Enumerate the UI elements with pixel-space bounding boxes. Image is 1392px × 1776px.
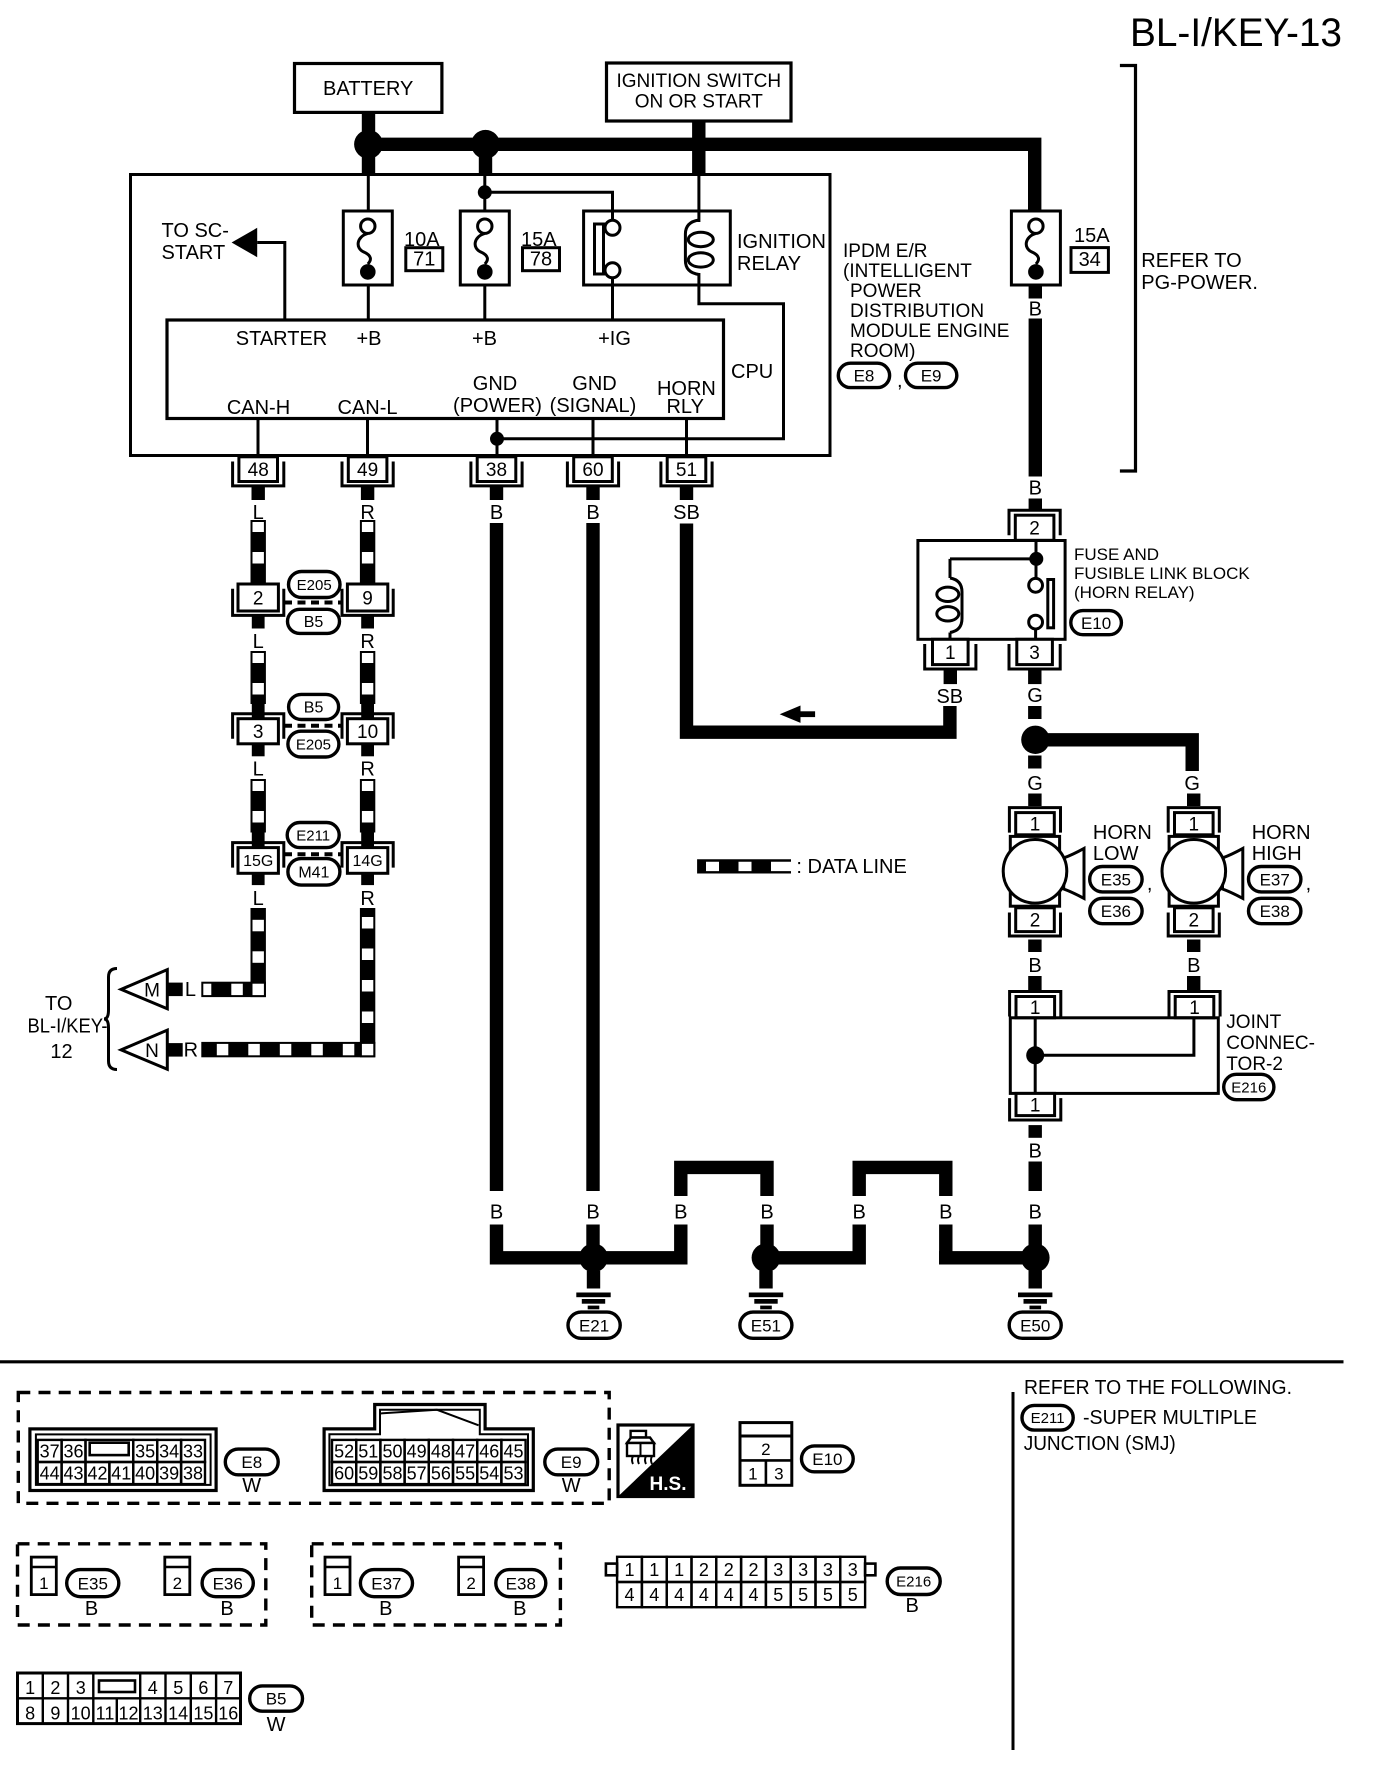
label IGNITION RELAY xyxy=(737,231,826,275)
svg-text:B: B xyxy=(220,1598,233,1620)
node JC junction xyxy=(1026,1046,1044,1064)
svg-text:2: 2 xyxy=(253,588,264,609)
wire E10 pin1 stub xyxy=(944,670,957,684)
wire CAN-L pin xyxy=(366,419,369,457)
horn low body xyxy=(1003,836,1084,906)
svg-text:B: B xyxy=(1029,1202,1042,1224)
inline connector 9 xyxy=(342,572,393,629)
svg-text:W: W xyxy=(562,1475,581,1497)
ground symbol E50 xyxy=(1018,1271,1052,1309)
wire bus to fuse 78 xyxy=(483,176,486,211)
svg-text:7: 7 xyxy=(223,1678,233,1698)
wire E10 contact to pin3 xyxy=(1034,629,1037,639)
svg-text:38: 38 xyxy=(183,1464,203,1484)
wire pin49 stub xyxy=(361,486,374,500)
data line CAN-H horizontal xyxy=(202,983,265,996)
label +IG xyxy=(598,328,631,350)
wire bus dot to IPDM xyxy=(479,150,492,175)
svg-text:B5: B5 xyxy=(304,700,324,717)
svg-text:R: R xyxy=(360,758,374,780)
inline connector 15G xyxy=(233,831,284,886)
label STARTER xyxy=(236,328,328,350)
connector ref E38 view xyxy=(496,1570,546,1620)
svg-text:39: 39 xyxy=(159,1464,179,1484)
wire fuse 78 to +B xyxy=(483,285,486,320)
svg-text:L: L xyxy=(253,888,264,910)
svg-text:+B: +B xyxy=(472,328,497,350)
svg-text:ROOM): ROOM) xyxy=(850,341,915,362)
svg-text:M41: M41 xyxy=(298,865,329,882)
label G horn low xyxy=(1027,773,1043,795)
wire battery to fuse 71 xyxy=(367,176,370,211)
svg-text:FUSE AND: FUSE AND xyxy=(1074,545,1159,564)
svg-text:2: 2 xyxy=(173,1574,182,1593)
connector ref E216 xyxy=(1224,1074,1274,1099)
svg-text:51: 51 xyxy=(676,460,697,481)
svg-text:3: 3 xyxy=(823,1560,833,1580)
arrow signal direction xyxy=(780,706,815,723)
connector ref E37 view xyxy=(360,1570,412,1620)
label IPDM E/R block xyxy=(843,241,1009,362)
dashed group box E8 E9 xyxy=(18,1393,609,1504)
horn high body xyxy=(1162,836,1243,906)
svg-text:E37: E37 xyxy=(371,1574,401,1593)
svg-text:8: 8 xyxy=(25,1704,35,1724)
E10 relay contact bottom xyxy=(1029,615,1043,629)
dashed mate line pair3 xyxy=(284,852,342,856)
label G horn high xyxy=(1184,773,1200,795)
svg-text:41: 41 xyxy=(111,1464,131,1484)
joint connector pin 1 bottom xyxy=(1010,1093,1061,1120)
fuse and fusible link block box xyxy=(918,541,1065,640)
wire stub horn high xyxy=(1187,794,1200,807)
svg-text:35: 35 xyxy=(135,1441,155,1461)
connector ref E37 xyxy=(1249,867,1301,892)
wire fuse 71 to +B xyxy=(367,285,370,320)
label HORN RLY xyxy=(657,378,716,418)
label B horn low xyxy=(1028,955,1041,977)
wire horn high pin2 stub xyxy=(1187,940,1200,953)
wire G segment xyxy=(1028,706,1041,719)
E10 relay coil xyxy=(937,559,962,639)
connector ref E35 xyxy=(1090,867,1142,892)
connector ref E216 view xyxy=(887,1568,940,1617)
svg-text:1: 1 xyxy=(333,1574,342,1593)
svg-text:E211: E211 xyxy=(1031,1410,1065,1427)
svg-text:(POWER): (POWER) xyxy=(453,395,542,417)
svg-text:W: W xyxy=(242,1475,261,1497)
wire stub to E10 pin2 xyxy=(1029,499,1042,512)
wire main power bus xyxy=(362,144,1035,212)
svg-text:CAN-H: CAN-H xyxy=(227,397,290,419)
svg-text:RELAY: RELAY xyxy=(737,253,801,275)
ground ref E51 xyxy=(740,1312,792,1338)
label REFER TO THE FOLLOWING xyxy=(1024,1377,1292,1399)
wire relay contact to +IG xyxy=(611,278,614,320)
label B pin38 xyxy=(490,502,503,524)
label JOINT CONNECTOR-2 xyxy=(1226,1012,1315,1075)
svg-text:H.S.: H.S. xyxy=(650,1474,687,1495)
horn low pin 2 xyxy=(1009,908,1060,936)
svg-text:2: 2 xyxy=(724,1560,734,1580)
data line CAN-L seg1 xyxy=(361,521,374,584)
wire ignition switch stub xyxy=(692,121,705,176)
label 15A right xyxy=(1074,225,1110,247)
wire 38 corner to E21 xyxy=(497,1225,595,1258)
node ground junction E21 xyxy=(579,1243,608,1272)
wire E51 to hop2 xyxy=(770,1251,866,1264)
svg-text:B: B xyxy=(490,502,503,524)
svg-text:1: 1 xyxy=(649,1560,659,1580)
svg-text:49: 49 xyxy=(407,1441,427,1461)
svg-text:2: 2 xyxy=(466,1574,475,1593)
wire JC bottom stub xyxy=(1029,1125,1042,1138)
IPDM pin 60 xyxy=(567,457,618,486)
svg-text:60: 60 xyxy=(334,1464,354,1484)
connector ref E10 view xyxy=(802,1446,854,1472)
relay contact bar xyxy=(595,224,604,274)
H.S. logo xyxy=(618,1425,693,1497)
ignition relay coil xyxy=(685,220,713,275)
connector ref E36 view xyxy=(202,1570,253,1620)
corner CAN-L xyxy=(361,1043,374,1056)
svg-text:B: B xyxy=(1028,955,1041,977)
label SB at E10 xyxy=(936,686,963,708)
svg-text:,: , xyxy=(1306,873,1312,895)
joint connector-2 body xyxy=(1010,1018,1218,1094)
label TO BL-I/KEY-12 xyxy=(28,993,108,1063)
connector ref B5 pair2 xyxy=(289,694,339,719)
label B hop1 left xyxy=(674,1202,687,1224)
svg-text:E35: E35 xyxy=(1101,870,1131,889)
svg-text:LOW: LOW xyxy=(1093,843,1139,865)
label FUSE AND FUSIBLE LINK BLOCK xyxy=(1074,545,1250,602)
label B pin60 xyxy=(586,502,599,524)
fuse 10A 71 xyxy=(343,211,392,285)
svg-text:4: 4 xyxy=(649,1585,659,1605)
svg-text:B: B xyxy=(85,1598,98,1620)
connector view E9 xyxy=(324,1405,533,1491)
bracket refer to PG-POWER xyxy=(1120,66,1136,472)
svg-text:B: B xyxy=(1029,1141,1042,1163)
comma between E8 E9 xyxy=(897,370,903,392)
wire stub horn low xyxy=(1028,794,1041,807)
svg-text:2: 2 xyxy=(699,1560,709,1580)
svg-text:42: 42 xyxy=(87,1464,107,1484)
svg-text:R: R xyxy=(360,888,374,910)
svg-text:71: 71 xyxy=(413,249,435,271)
connector ref E205 pair2 xyxy=(288,731,339,757)
off-page arrow N xyxy=(121,1030,167,1069)
svg-text:E205: E205 xyxy=(296,737,331,754)
svg-text:59: 59 xyxy=(358,1464,378,1484)
fuse 15A 34 xyxy=(1011,211,1060,285)
svg-text:4: 4 xyxy=(699,1585,709,1605)
svg-text:60: 60 xyxy=(582,460,603,481)
connector ref E10 xyxy=(1071,611,1122,635)
svg-text:B: B xyxy=(939,1202,952,1224)
joint connector pin 1 right xyxy=(1169,992,1220,1020)
wire 38 ground run xyxy=(490,523,503,1191)
label +B fuse71 xyxy=(356,328,381,350)
wire E10 pin2 internal xyxy=(1035,541,1038,580)
svg-text:3: 3 xyxy=(253,722,264,743)
E10 contact bar xyxy=(1048,580,1054,628)
svg-text:2: 2 xyxy=(748,1560,758,1580)
arrow to SC-START xyxy=(232,228,258,257)
pin view 2 E36 xyxy=(165,1557,190,1595)
corner CAN-H xyxy=(252,983,265,996)
svg-text:CAN-L: CAN-L xyxy=(337,397,397,419)
svg-text:5: 5 xyxy=(173,1678,183,1698)
connector ref E35 view xyxy=(67,1570,119,1620)
svg-text:L: L xyxy=(253,758,264,780)
title BL-I/KEY-13 xyxy=(1130,11,1342,55)
svg-text:6: 6 xyxy=(198,1678,208,1698)
wire hop2 arch xyxy=(859,1167,946,1196)
wire N arrow stub xyxy=(167,1043,182,1057)
wire branch to relay contact xyxy=(485,192,613,221)
wire horn relay output SB xyxy=(687,524,950,733)
svg-text:1: 1 xyxy=(674,1560,684,1580)
svg-text:E38: E38 xyxy=(506,1574,536,1593)
wire CAN-H pin xyxy=(257,419,260,457)
svg-text:13: 13 xyxy=(143,1704,163,1724)
svg-text:3: 3 xyxy=(1029,643,1040,664)
data line CAN-L seg3 xyxy=(361,780,374,832)
connector ref E9 view xyxy=(545,1449,598,1497)
svg-text:G: G xyxy=(1027,685,1043,707)
svg-text:E9: E9 xyxy=(921,367,942,386)
label R below pair1 xyxy=(360,631,374,653)
node ignition branch xyxy=(478,185,492,199)
wire 60 ground run xyxy=(586,523,599,1191)
pin view 2 E38 xyxy=(459,1557,484,1595)
data line CAN-H seg2 xyxy=(252,652,265,703)
svg-text:STARTER: STARTER xyxy=(236,328,328,350)
wire fuse34 stub xyxy=(1029,285,1042,299)
svg-text:38: 38 xyxy=(486,460,507,481)
node horn feed junction xyxy=(1021,726,1049,754)
svg-text:E51: E51 xyxy=(751,1316,781,1335)
svg-text:B: B xyxy=(1187,955,1200,977)
svg-text:CONNEC-: CONNEC- xyxy=(1226,1033,1315,1054)
E10 pin 2 xyxy=(1009,510,1060,540)
node ground junction E50 xyxy=(1021,1243,1050,1272)
label L below pair3 xyxy=(253,888,264,910)
label B above E50 xyxy=(1029,1202,1042,1224)
comma after E35 xyxy=(1147,873,1153,895)
svg-text:E8: E8 xyxy=(241,1453,262,1472)
label B 60-line xyxy=(586,1202,599,1224)
svg-text:HIGH: HIGH xyxy=(1252,843,1302,865)
pin view 1 E35 xyxy=(31,1557,56,1595)
CPU box xyxy=(167,320,724,419)
label 10A xyxy=(404,229,440,251)
data line CAN-L seg4 xyxy=(361,909,374,1043)
svg-text:W: W xyxy=(267,1714,286,1736)
svg-text:M: M xyxy=(144,981,160,1002)
svg-text:1: 1 xyxy=(1030,815,1041,836)
fuse number box 78 xyxy=(523,248,560,271)
svg-text:1: 1 xyxy=(1189,998,1200,1019)
label GND SIGNAL xyxy=(550,373,637,417)
svg-text:1: 1 xyxy=(1030,998,1041,1019)
wire G segment below dot xyxy=(1028,756,1041,769)
svg-text:3: 3 xyxy=(773,1560,783,1580)
svg-text:10: 10 xyxy=(357,722,378,743)
wire horn high to JC xyxy=(1187,976,1200,990)
relay contact pin top xyxy=(605,220,620,235)
svg-text:55: 55 xyxy=(455,1464,475,1484)
svg-text:IGNITION: IGNITION xyxy=(737,231,826,253)
wire pin51 stub xyxy=(680,486,693,500)
connector ref E36 xyxy=(1090,898,1142,923)
wire ignition switch to relay coil xyxy=(697,176,700,222)
wire hop1 left leg xyxy=(674,1225,687,1265)
label R at N arrow xyxy=(184,1039,198,1061)
svg-text:BATTERY: BATTERY xyxy=(323,78,413,100)
svg-text:78: 78 xyxy=(530,249,552,271)
svg-text:DISTRIBUTION: DISTRIBUTION xyxy=(850,301,984,322)
svg-text:12: 12 xyxy=(118,1704,138,1724)
wire HORN RLY pin xyxy=(685,419,688,457)
svg-text:B: B xyxy=(906,1595,919,1617)
svg-text:2: 2 xyxy=(1030,911,1041,932)
svg-text:48: 48 xyxy=(248,460,269,481)
svg-text:B: B xyxy=(586,1202,599,1224)
ground ref E50 xyxy=(1009,1312,1061,1338)
inline connector 3 xyxy=(233,703,284,757)
brace xyxy=(104,969,117,1070)
svg-text:4: 4 xyxy=(674,1585,684,1605)
svg-text:G: G xyxy=(1184,773,1200,795)
node GND power junction xyxy=(490,432,504,446)
svg-text:1: 1 xyxy=(39,1574,48,1593)
wire GND power pin xyxy=(496,419,499,457)
inline connector 10 xyxy=(342,703,393,757)
svg-text:RLY: RLY xyxy=(666,396,703,418)
wire battery dot to IPDM xyxy=(362,150,375,175)
svg-text:JUNCTION (SMJ): JUNCTION (SMJ) xyxy=(1024,1433,1176,1455)
connector view B5 xyxy=(18,1673,241,1724)
svg-text:E36: E36 xyxy=(213,1574,243,1593)
svg-text:HORN: HORN xyxy=(1093,822,1152,844)
svg-text:E38: E38 xyxy=(1260,902,1290,921)
label CAN-L xyxy=(337,397,397,419)
label B hop2 right xyxy=(939,1202,952,1224)
svg-text:+IG: +IG xyxy=(598,328,631,350)
svg-text:49: 49 xyxy=(357,460,378,481)
horn high pin 2 xyxy=(1168,908,1219,936)
svg-text:E10: E10 xyxy=(812,1450,842,1469)
svg-text:BL-I/KEY-: BL-I/KEY- xyxy=(28,1016,108,1038)
svg-text:IPDM E/R: IPDM E/R xyxy=(843,241,927,262)
svg-text:L: L xyxy=(253,631,264,653)
IPDM pin 48 xyxy=(233,457,284,486)
E10 pin 3 xyxy=(1009,639,1060,669)
connector ref E8 xyxy=(838,363,889,387)
svg-text:G: G xyxy=(1027,773,1043,795)
connector ref B5 pair1 xyxy=(288,609,340,633)
svg-text:40: 40 xyxy=(135,1464,155,1484)
svg-text:B: B xyxy=(490,1202,503,1224)
dashed group box E35 E36 xyxy=(18,1544,266,1625)
svg-text:E50: E50 xyxy=(1020,1316,1050,1335)
connector ref E205 pair1 xyxy=(289,572,341,598)
label +B fuse78 xyxy=(472,328,497,350)
svg-text:52: 52 xyxy=(334,1441,354,1461)
svg-text:(INTELLIGENT: (INTELLIGENT xyxy=(843,261,972,282)
label DATA LINE xyxy=(796,856,906,878)
ground symbol E51 xyxy=(749,1271,783,1309)
svg-text:12: 12 xyxy=(50,1041,72,1063)
data line CAN-H seg1 xyxy=(252,521,265,584)
svg-text:B: B xyxy=(513,1598,526,1620)
svg-text:1: 1 xyxy=(25,1678,35,1698)
svg-text:3: 3 xyxy=(848,1560,858,1580)
node battery junction xyxy=(354,130,383,159)
wire pin60 stub xyxy=(586,486,599,500)
connector ref E211 pair3 xyxy=(287,823,339,848)
svg-text:B: B xyxy=(1029,478,1042,500)
connector view E8 xyxy=(30,1429,216,1491)
fuse number box 34 xyxy=(1071,248,1108,273)
label B 38-line xyxy=(490,1202,503,1224)
svg-text:16: 16 xyxy=(218,1704,238,1724)
wire hop1 arch xyxy=(681,1167,767,1196)
svg-text:15: 15 xyxy=(193,1704,213,1724)
separator line xyxy=(0,1360,1344,1363)
fuse 15A 78 xyxy=(460,211,509,285)
svg-text:36: 36 xyxy=(63,1441,83,1461)
svg-text:TO SC-: TO SC- xyxy=(162,220,229,242)
svg-text:B: B xyxy=(853,1202,866,1224)
pin view 1 E37 xyxy=(325,1557,350,1595)
svg-text:B: B xyxy=(674,1202,687,1224)
svg-text:TO: TO xyxy=(45,993,72,1015)
svg-text:,: , xyxy=(1147,873,1153,895)
svg-text:4: 4 xyxy=(624,1585,634,1605)
connector view E10 xyxy=(740,1423,792,1486)
label G below E10 xyxy=(1027,685,1043,707)
wire horn low pin2 stub xyxy=(1028,940,1041,953)
label CPU xyxy=(731,361,773,383)
ignition switch box xyxy=(607,63,792,121)
wire JC column into E50 xyxy=(1029,1225,1042,1252)
svg-text:9: 9 xyxy=(50,1704,60,1724)
label HORN LOW xyxy=(1093,822,1152,865)
svg-text:CPU: CPU xyxy=(731,361,773,383)
svg-text:3: 3 xyxy=(774,1465,783,1484)
label B above E10 pin2 xyxy=(1029,478,1042,500)
svg-text:14: 14 xyxy=(168,1704,188,1724)
data line legend sample xyxy=(698,861,791,873)
label L below pair1 xyxy=(253,631,264,653)
wire JC internal branch xyxy=(1035,1018,1194,1056)
data line CAN-H seg4 xyxy=(252,909,265,983)
svg-text:E21: E21 xyxy=(579,1316,609,1335)
wire E21 to hop1 xyxy=(598,1251,688,1264)
wire hop2 right leg xyxy=(939,1225,952,1265)
svg-text:(HORN RELAY): (HORN RELAY) xyxy=(1074,583,1195,602)
label JUNCTION SMJ xyxy=(1024,1433,1176,1455)
svg-text:L: L xyxy=(185,979,196,1001)
svg-text:R: R xyxy=(184,1039,198,1061)
ground ref E21 xyxy=(568,1312,620,1338)
svg-text:E211: E211 xyxy=(296,827,330,844)
svg-text:E37: E37 xyxy=(1260,870,1290,889)
